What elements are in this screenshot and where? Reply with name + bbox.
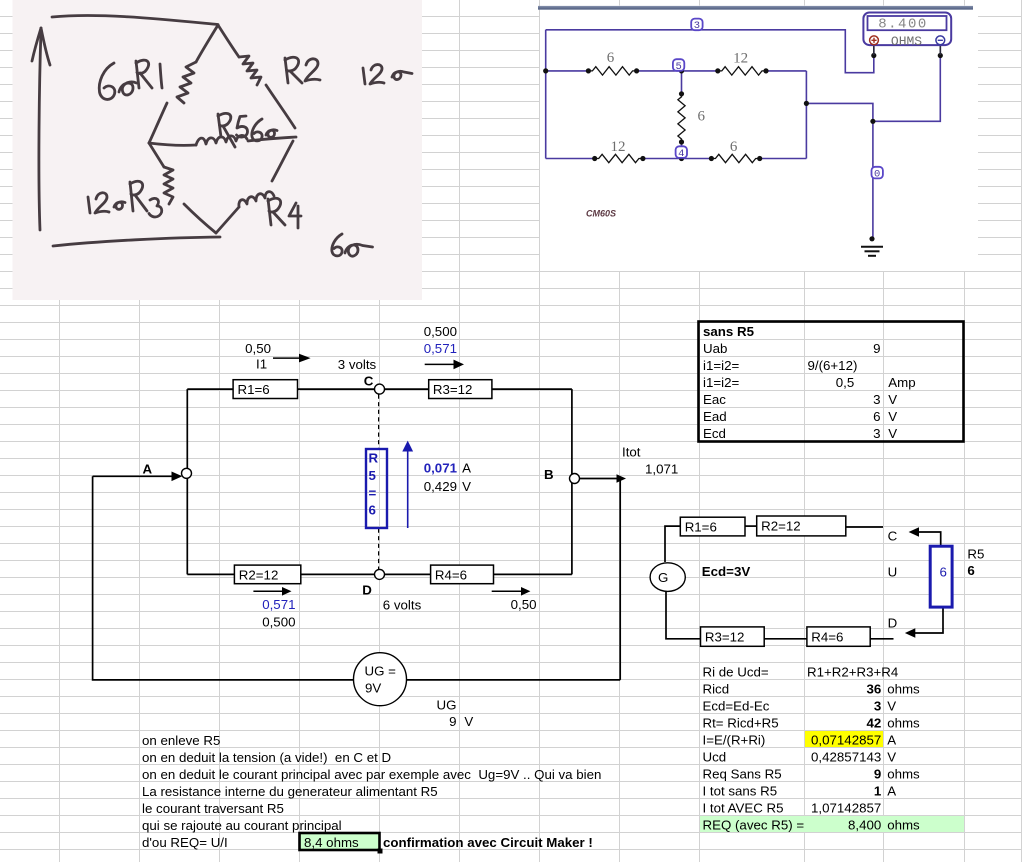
svg-text:CM60S: CM60S <box>586 209 616 219</box>
svg-text:REQ (avec R5) =: REQ (avec R5) = <box>703 818 805 833</box>
svg-text:12: 12 <box>733 51 748 67</box>
svg-text:La resistance interne du gener: La resistance interne du generateur alim… <box>142 784 438 799</box>
svg-text:1: 1 <box>874 784 882 799</box>
sketch: label R3 <box>130 182 133 211</box>
svg-text:Ecd=Ed-Ec: Ecd=Ed-Ec <box>703 699 770 714</box>
svg-text:ohms: ohms <box>887 767 920 782</box>
arrow shaft I1 <box>273 357 300 359</box>
wire: Itot arrow lead from node B <box>578 478 617 480</box>
node label 3 <box>691 19 702 31</box>
svg-text:R2=12: R2=12 <box>239 567 279 582</box>
svg-text:G: G <box>658 570 668 585</box>
svg-text:Amp: Amp <box>888 375 915 390</box>
svg-text:OHMS: OHMS <box>891 34 922 49</box>
generator G circle <box>650 563 685 592</box>
arrow shaft above R3 <box>425 363 454 365</box>
node D circle <box>375 569 385 579</box>
sketch: label 6 ohm (for R4) <box>332 234 342 256</box>
svg-text:6 volts: 6 volts <box>383 597 422 612</box>
svg-text:9: 9 <box>874 767 881 782</box>
sketch: label 6 ohm R1 <box>99 63 115 99</box>
svg-text:4: 4 <box>678 148 684 160</box>
svg-text:36: 36 <box>867 682 882 697</box>
svg-text:I=E/(R+Ri): I=E/(R+Ri) <box>703 733 766 748</box>
svg-text:0,571: 0,571 <box>262 597 295 612</box>
svg-text:6: 6 <box>940 564 947 579</box>
resistor R3 box (series circuit) <box>701 627 765 646</box>
svg-text:9: 9 <box>873 341 880 356</box>
svg-text:UG =: UG = <box>365 664 397 679</box>
svg-text:R1+R2+R3+R4: R1+R2+R3+R4 <box>807 665 898 680</box>
resistor R4 box <box>431 565 494 584</box>
svg-text:C: C <box>888 529 898 544</box>
node label 0 <box>872 167 883 179</box>
dashed measure line C-D <box>378 395 380 570</box>
wire net 3: top horizontal <box>546 30 874 73</box>
svg-text:0,571: 0,571 <box>424 341 457 356</box>
svg-text:6: 6 <box>730 139 738 155</box>
svg-text:R5: R5 <box>967 546 984 561</box>
sketch: label 12 ohm (for R2) <box>363 68 365 84</box>
svg-text:V: V <box>464 714 473 729</box>
node label 4 <box>676 146 687 158</box>
resistor R2 box <box>234 565 300 584</box>
wire: R2 to C <box>845 526 883 528</box>
svg-text:ohms: ohms <box>887 818 920 833</box>
svg-text:I tot sans R5: I tot sans R5 <box>703 784 778 799</box>
svg-text:ohms: ohms <box>887 682 920 697</box>
svg-text:sans R5: sans R5 <box>703 324 755 339</box>
svg-text:on enleve R5: on enleve R5 <box>142 733 220 748</box>
svg-text:le courant traversant R5: le courant traversant R5 <box>142 801 284 816</box>
svg-text:Req Sans R5: Req Sans R5 <box>703 767 782 782</box>
wire: arrow C to R5 top <box>917 532 941 546</box>
resistor 6 (top-left of CM network) <box>588 67 636 75</box>
svg-text:Ricd: Ricd <box>703 682 730 697</box>
svg-text:0,5: 0,5 <box>836 375 855 390</box>
svg-text:3: 3 <box>873 426 880 441</box>
svg-text:9: 9 <box>449 714 456 729</box>
wire: lower row segments <box>546 158 595 160</box>
arrowhead into C <box>909 527 919 537</box>
svg-text:0: 0 <box>874 168 880 180</box>
resistor R2 box (series circuit) <box>757 516 846 536</box>
svg-text:V: V <box>462 479 471 494</box>
sans R5 table thick border <box>699 322 964 442</box>
node label 5 <box>673 59 684 71</box>
resistor 6 (bottom-right of CM network) <box>711 154 759 162</box>
svg-text:8.400: 8.400 <box>878 17 928 33</box>
svg-text:0,500: 0,500 <box>262 614 295 629</box>
arrowheads (current direction) <box>172 354 627 596</box>
sketch: resistor R3 (bottom-left diamond edge, squiggle) <box>149 143 164 167</box>
resistor R1 box (series circuit) <box>680 517 745 536</box>
svg-text:I tot AVEC R5: I tot AVEC R5 <box>703 801 784 816</box>
sketch: label R5 <box>218 114 221 137</box>
svg-text:R1=6: R1=6 <box>238 382 270 397</box>
resistor R5 box (blue, transparent) <box>366 449 387 528</box>
resistor R4 box (series circuit) <box>807 627 870 646</box>
svg-text:0,50: 0,50 <box>511 597 537 612</box>
sketch: left current arrow <box>39 30 41 230</box>
svg-text:V: V <box>887 699 896 714</box>
svg-text:6: 6 <box>967 563 974 578</box>
svg-text:i1=i2=: i1=i2= <box>703 375 739 390</box>
CircuitMaker simulation image background <box>540 6 978 272</box>
svg-text:8,400: 8,400 <box>848 818 881 833</box>
svg-text:=: = <box>369 485 377 500</box>
sketch: resistor R2 (top-right diamond edge, squiggle) <box>218 25 239 57</box>
svg-text:R4=6: R4=6 <box>435 567 467 582</box>
svg-text:3 volts: 3 volts <box>338 357 377 372</box>
arrow shaft under R4 <box>492 590 522 592</box>
junction dots <box>543 53 943 242</box>
svg-text:3: 3 <box>874 699 881 714</box>
svg-text:R: R <box>369 451 379 466</box>
svg-text:R4=6: R4=6 <box>811 629 843 644</box>
wire: arrow D to R5 bottom <box>914 607 943 633</box>
svg-text:1,071: 1,071 <box>645 461 678 476</box>
svg-text:6: 6 <box>873 409 880 424</box>
wire: upper row segments <box>546 70 589 72</box>
wire: left vertical <box>545 30 547 159</box>
svg-text:Ead: Ead <box>703 409 727 424</box>
node B circle <box>570 474 580 484</box>
generator UG circle <box>354 653 407 706</box>
svg-text:Rt= Ricd+R5: Rt= Ricd+R5 <box>703 716 779 731</box>
svg-text:R3=12: R3=12 <box>705 629 745 644</box>
svg-text:3: 3 <box>873 392 880 407</box>
arrow shaft under R2 <box>253 590 283 592</box>
svg-text:Ecd=3V: Ecd=3V <box>702 564 751 579</box>
svg-text:0,42857143: 0,42857143 <box>811 750 881 765</box>
svg-text:Eac: Eac <box>703 392 726 407</box>
svg-text:Uab: Uab <box>703 341 727 356</box>
svg-text:R1=6: R1=6 <box>685 520 717 535</box>
wire: right vertical <box>805 71 807 159</box>
node C circle <box>375 384 385 394</box>
svg-text:R2=12: R2=12 <box>761 519 801 534</box>
sketch: top wire <box>52 15 218 24</box>
wire: arrow lead into node A <box>93 475 172 477</box>
svg-text:UG: UG <box>437 697 457 712</box>
wire: generator loop right riser to Itot <box>619 479 621 680</box>
sketch: resistor R5 (middle horizontal, squiggle) <box>149 143 196 145</box>
wire: meter minus lead <box>873 45 940 121</box>
svg-text:8,4 ohms: 8,4 ohms <box>304 835 359 850</box>
svg-text:6: 6 <box>369 503 376 518</box>
svg-text:42: 42 <box>867 716 882 731</box>
svg-text:R3=12: R3=12 <box>433 382 473 397</box>
green highlighted row REQ (avec R5) <box>700 816 964 832</box>
resistor 6 (middle vertical of CM network) <box>678 94 685 142</box>
svg-text:I1: I1 <box>256 356 267 371</box>
ohmmeter U1 <box>863 13 951 46</box>
sketch: resistor R4 (bottom-right diamond edge, squiggle) <box>216 207 239 233</box>
wire: G to R3 <box>666 592 701 639</box>
wire: bridge right vertical at node B <box>571 389 573 574</box>
svg-text:0,500: 0,500 <box>424 324 457 339</box>
svg-text:V: V <box>888 392 897 407</box>
svg-text:D: D <box>888 616 898 631</box>
wire: to ground (net 0) <box>806 103 873 239</box>
svg-text:0,50: 0,50 <box>245 341 271 356</box>
wire: R4 to D <box>870 638 893 640</box>
svg-text:A: A <box>887 784 896 799</box>
svg-text:3: 3 <box>694 20 700 32</box>
scanned hand-drawn sketch: paper background <box>13 0 423 300</box>
sketch: label 6 ohm (for R5) <box>252 119 262 141</box>
svg-text:0,429: 0,429 <box>424 479 457 494</box>
svg-text:6: 6 <box>607 50 615 66</box>
sketch: bottom wire <box>53 237 220 246</box>
resistor R1 box <box>233 380 297 399</box>
wire: middle vertical leads <box>681 71 683 94</box>
wire: bridge top rail (A-C-B top) <box>187 388 572 390</box>
svg-text:Ri de Ucd=: Ri de Ucd= <box>703 665 769 680</box>
node A circle <box>182 468 192 478</box>
sketch: resistor R1 (top-left diamond edge, squiggle) <box>196 25 218 62</box>
resistor R5 box (blue, series circuit) <box>930 546 952 607</box>
wire: G to R1 <box>665 526 680 562</box>
selected green cell 8,4 ohms <box>300 833 380 850</box>
svg-text:Itot: Itot <box>622 445 641 460</box>
svg-text:C: C <box>364 374 374 389</box>
wire: bridge left vertical at node A <box>186 389 188 574</box>
svg-text:6: 6 <box>698 108 706 124</box>
svg-text:5: 5 <box>675 61 681 73</box>
svg-text:0,071: 0,071 <box>424 460 458 475</box>
meter terminal leads <box>873 46 875 55</box>
wire: bridge bottom rail (A-D-B bottom) <box>187 573 572 575</box>
svg-text:V: V <box>887 750 896 765</box>
resistor 12 (top-right of CM network) <box>718 67 766 75</box>
svg-text:9V: 9V <box>365 680 381 695</box>
ohmmeter plus terminal <box>870 36 879 45</box>
sketch: label R4 <box>268 199 271 225</box>
svg-text:qui se rajoute au courant prin: qui se rajoute au courant principal <box>142 818 342 833</box>
svg-text:5: 5 <box>369 468 377 483</box>
wire: R1 to R2 <box>744 525 757 527</box>
blue current arrow beside R5 <box>407 450 409 528</box>
svg-text:A: A <box>143 461 153 476</box>
arrowhead into D <box>905 628 915 638</box>
sketch: label 12 ohm (for R3) <box>88 197 90 213</box>
svg-text:1,07142857: 1,07142857 <box>811 801 881 816</box>
svg-text:Ecd: Ecd <box>703 426 726 441</box>
svg-text:on en deduit le courant princi: on en deduit le courant principal avec p… <box>142 767 601 782</box>
svg-text:D: D <box>362 583 372 598</box>
svg-text:Ucd: Ucd <box>703 750 727 765</box>
svg-text:ohms: ohms <box>887 716 920 731</box>
svg-text:A: A <box>462 460 471 475</box>
yellow highlighted cell I=E/(R+Ri) value <box>805 731 883 747</box>
ground symbol <box>861 247 883 256</box>
sketch: label R2 <box>285 58 288 83</box>
resistor 12 (bottom-left of CM network) <box>595 154 643 162</box>
resistor R3 box <box>429 380 492 399</box>
svg-text:12: 12 <box>611 139 626 155</box>
svg-text:0,07142857: 0,07142857 <box>811 733 881 748</box>
svg-text:A: A <box>887 733 896 748</box>
svg-text:V: V <box>888 426 897 441</box>
ohmmeter minus terminal <box>936 36 945 45</box>
wire: generator loop left <box>93 476 621 680</box>
svg-text:U: U <box>888 564 898 579</box>
wire: R3 to R4 <box>764 638 807 640</box>
svg-text:i1=i2=: i1=i2= <box>703 358 739 373</box>
svg-text:B: B <box>544 467 554 482</box>
svg-text:on en deduit la tension (a vid: on en deduit la tension (a vide!) en C e… <box>142 750 391 765</box>
window top border bar <box>538 6 973 7</box>
svg-text:V: V <box>888 409 897 424</box>
svg-text:confirmation avec Circuit Make: confirmation avec Circuit Maker ! <box>383 835 593 850</box>
svg-text:9/(6+12): 9/(6+12) <box>808 358 858 373</box>
svg-text:d'ou REQ= U/I: d'ou REQ= U/I <box>142 835 228 850</box>
